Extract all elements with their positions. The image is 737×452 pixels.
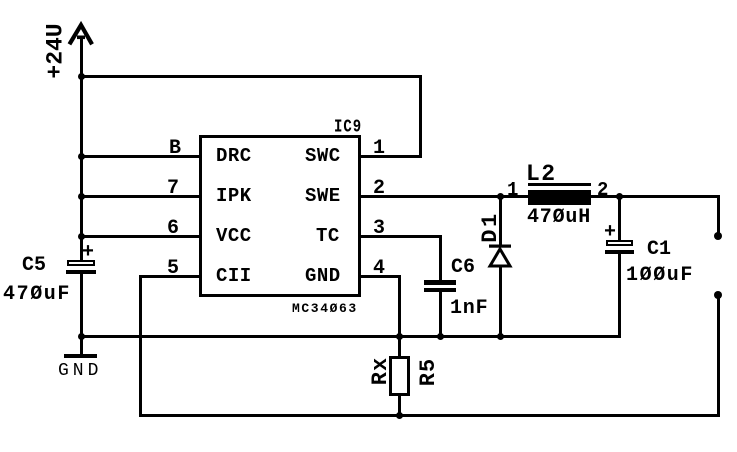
node: SWE/D1/L2 junction (497, 193, 504, 200)
pin name IPK (216, 187, 252, 206)
node: C6/mid-rail junction (437, 333, 444, 340)
capacitor C6 bottom plate (424, 288, 456, 292)
label 470uH (527, 208, 591, 228)
power arrow +24V (0, 0, 110, 60)
pin number 3 (373, 219, 385, 239)
wire: vertical x=718 to output terminal 1 (717, 195, 720, 238)
node: rail/pin6 junction (78, 233, 85, 240)
wire: pin 6 VCC (80, 235, 201, 238)
label 100uF (626, 266, 694, 286)
pin name TC (316, 227, 340, 246)
wire: lower feedback rail y=415 (139, 414, 719, 417)
label C5 (22, 256, 46, 276)
capacitor C1 bottom plate (605, 250, 634, 254)
node: rail/pin8 junction (78, 153, 85, 160)
pin name DRC (216, 147, 252, 166)
pin name SWC (305, 147, 341, 166)
wire: Rx bottom stub (398, 395, 401, 416)
pin number 7 (167, 179, 179, 199)
capacitor C6 top plate (424, 280, 456, 285)
capacitor C5 top plate (67, 260, 95, 266)
node: rail/mid-rail junction (78, 333, 85, 340)
wire: C1 bottom vertical to mid rail (618, 253, 621, 338)
wire: pin 8 DRC (80, 155, 201, 158)
node: L2/C1 junction (616, 193, 623, 200)
wire: C6 bottom to mid rail (439, 291, 442, 337)
label L2 (526, 163, 557, 186)
wire: mid ground rail y=336 (80, 335, 621, 338)
wire: top rail y=76 (80, 75, 422, 78)
wire: left rail lower (C5 bottom plate to GND bar) (80, 271, 83, 356)
L2 pin number 1 (507, 181, 518, 200)
label Rx (370, 357, 392, 385)
capacitor C1 top plate (606, 240, 633, 246)
label C1 (647, 240, 671, 260)
capacitor C5 plus sign (82, 243, 94, 263)
node: output terminal 1 (714, 232, 722, 240)
pin name SWE (305, 187, 341, 206)
wire: left +24V rail upper (x=81, arrow to C5 top plate) (80, 38, 83, 262)
wire: pin 4 GND horizontal (360, 275, 400, 278)
wire: vertical x=718 terminal 2 to lower rail (717, 294, 720, 417)
pin name CII (216, 267, 252, 286)
wire: vertical x=140 (pin5 down to lower rail) (139, 275, 142, 417)
L2 pin number 2 (597, 181, 608, 200)
wire: vertical x=420 (top rail to pin1) (419, 75, 422, 157)
label +24V (45, 23, 68, 78)
node: output terminal 2 (714, 291, 722, 299)
pin number 1 (373, 139, 385, 159)
label 470uF (3, 285, 71, 305)
pin name GND (305, 267, 341, 286)
wire: pin 5 CII horizontal (139, 275, 201, 278)
resistor R5 body (389, 356, 410, 396)
wire: C1 top vertical (618, 195, 621, 241)
label R5 (418, 358, 440, 386)
node: D1/mid-rail junction (497, 333, 504, 340)
node: Rx/lower-rail junction (396, 412, 403, 419)
pin number 6 (167, 219, 179, 239)
inductor L2 body (528, 190, 591, 205)
inductor L2 core line (528, 183, 591, 186)
label GND (58, 362, 102, 380)
wire: Rx top stub (398, 335, 401, 357)
pin number 2 (373, 179, 385, 199)
wire: D1 cathode vertical (499, 195, 502, 247)
capacitor C5 bottom plate (66, 270, 96, 274)
node: rail/top-rail junction (78, 73, 85, 80)
wire: pin 7 IPK (80, 195, 201, 198)
label 1nF (450, 299, 488, 319)
node: pin4/mid-rail junction (396, 333, 403, 340)
wire: pin 2 SWE to output node y=196 (360, 195, 719, 198)
label IC9 (334, 118, 362, 137)
wire: vertical x=440 TC down to C6 (439, 235, 442, 281)
capacitor C1 plus sign (604, 223, 616, 243)
pin number 4 (373, 259, 385, 279)
op-amp IC9 MC34063 body (199, 135, 361, 297)
wire: vertical x=399 pin4 to mid rail (398, 275, 401, 337)
label D1 (480, 211, 502, 242)
ground bar (64, 354, 97, 358)
diode D1 (486, 242, 516, 271)
pin name VCC (216, 227, 252, 246)
wire: D1 anode vertical to mid rail (499, 266, 502, 337)
pin number 5 (167, 259, 179, 279)
node: rail/pin7 junction (78, 193, 85, 200)
label MC34063 (292, 302, 358, 315)
pin number 8 (169, 139, 181, 159)
wire: pin 3 TC horizontal (360, 235, 441, 238)
wire: pin 1 SWC (360, 155, 422, 158)
label C6 (451, 258, 475, 278)
